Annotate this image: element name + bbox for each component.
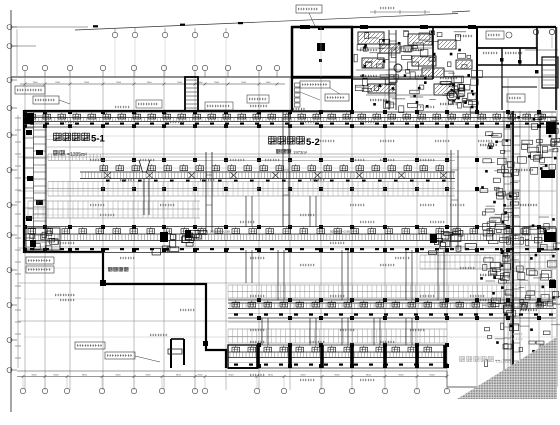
stall comb left segment	[48, 154, 101, 161]
right edge wall x=556	[555, 27, 557, 110]
svg-text:8100: 8100	[301, 375, 307, 377]
duct band 2	[80, 164, 455, 181]
svg-text:8100: 8100	[366, 375, 372, 377]
stall grid zone band2 lower rows	[48, 182, 455, 197]
zone label 5-1	[53, 133, 105, 145]
label box above band1 right	[247, 95, 269, 103]
bottom-left labels	[75, 334, 167, 362]
left duct shaft strip	[25, 111, 103, 252]
svg-text:8100: 8100	[198, 375, 204, 377]
svg-text:500x320 +2.80: 500x320 +2.80	[330, 230, 350, 234]
machinery equipment	[354, 30, 482, 113]
top equipment label with leader	[296, 5, 322, 26]
garage zone label	[108, 267, 113, 272]
duct band 5	[228, 345, 448, 368]
stall grid zone band5 upper	[228, 322, 447, 343]
inter-band connector stubs	[246, 196, 444, 345]
machinery zone walls	[352, 27, 477, 111]
vertical column grid lines	[25, 77, 539, 390]
scattered duct size labels	[60, 106, 493, 381]
svg-text:8100: 8100	[335, 375, 341, 377]
svg-text:7500: 7500	[147, 82, 153, 84]
svg-text:7500: 7500	[33, 82, 39, 84]
watermark text	[459, 333, 523, 365]
svg-text:1973m²: 1973m²	[293, 150, 308, 155]
duct band 3	[24, 227, 559, 253]
svg-text:7500: 7500	[116, 82, 122, 84]
sheet left border line	[10, 10, 12, 412]
svg-text:5-1: 5-1	[91, 134, 105, 145]
band3 dense cluster left	[152, 230, 207, 255]
stepped lower boundary	[24, 252, 226, 368]
zone label 5-2	[268, 136, 320, 148]
machinery tiny labels	[360, 35, 472, 105]
svg-text:=1395m²: =1395m²	[67, 152, 87, 158]
svg-text:8100: 8100	[268, 375, 274, 377]
outer wall: top y=27	[292, 25, 556, 29]
area label 5-2	[276, 149, 308, 155]
stall grid zone band3 lower right	[420, 255, 556, 269]
ramp door block	[100, 280, 106, 286]
vertical duct right V4	[504, 111, 511, 385]
area label 5-1	[53, 150, 87, 158]
stall grid zone left-mid	[28, 201, 200, 218]
outer wall: riser x=292	[291, 27, 293, 111]
svg-text:5-2: 5-2	[306, 137, 320, 148]
svg-text:8100: 8100	[116, 375, 122, 377]
svg-text:8100: 8100	[399, 375, 405, 377]
bottom grid bubbles	[20, 377, 449, 394]
right strip labels	[480, 144, 537, 311]
column squares at grid intersections	[23, 110, 541, 368]
grid bubbles row 2	[22, 65, 279, 77]
vertical duct V3 mid-right	[451, 150, 458, 250]
top-left grid stub lines	[12, 27, 88, 76]
top grid bubbles row 1	[112, 28, 228, 77]
svg-text:7500: 7500	[241, 82, 247, 84]
svg-text:8100: 8100	[176, 375, 182, 377]
outer wall: left vertical x=24	[23, 110, 25, 253]
svg-text:7500: 7500	[177, 82, 183, 84]
trumpet duct joint	[139, 160, 150, 215]
labels above band 1	[136, 100, 267, 110]
svg-text:7500: 7500	[214, 82, 220, 84]
svg-text:8100: 8100	[82, 375, 88, 377]
right edge wall blobs	[538, 117, 556, 288]
outer wall: top-left section y=111	[24, 110, 292, 112]
left margin dimension ticks	[15, 115, 21, 368]
right strip equipment clusters	[480, 111, 560, 387]
top dimension line	[20, 82, 285, 86]
right rooms labels	[483, 31, 525, 102]
left legend boxes top	[15, 86, 70, 104]
svg-text:8100: 8100	[32, 375, 38, 377]
right rooms top walls	[477, 27, 558, 110]
duct band 1	[24, 112, 559, 127]
right service wall x=513	[512, 111, 514, 387]
stair shaft (185-198, 77-111)	[185, 77, 198, 111]
lower boundary small rooms walls	[168, 339, 258, 368]
main top grid line	[11, 76, 558, 78]
band3 left room cluster	[26, 228, 60, 252]
svg-text:7500: 7500	[84, 82, 90, 84]
stall grid zone band4 upper	[228, 285, 556, 298]
svg-text:7500: 7500	[55, 82, 61, 84]
vertical duct V2	[206, 152, 212, 232]
vertical duct V1	[283, 112, 289, 227]
top dimension marks right	[370, 7, 430, 14]
top-right grid bubbles	[525, 29, 558, 50]
room R1 (refuge)	[292, 26, 352, 77]
bottom dimension band	[17, 371, 556, 387]
svg-text:8100: 8100	[430, 375, 436, 377]
svg-text:8100: 8100	[54, 375, 60, 377]
svg-text:320x250 +2.80: 320x250 +2.80	[210, 230, 230, 234]
band3 dense cluster right	[428, 230, 476, 254]
left grid bubbles column	[7, 25, 17, 373]
machinery corner dense cluster	[449, 84, 476, 113]
svg-text:7500: 7500	[266, 82, 272, 84]
top match/leader line	[75, 11, 470, 30]
duct band 4	[228, 300, 556, 318]
right boundary vertical lines	[552, 27, 557, 387]
svg-text:co188: co188	[496, 359, 511, 365]
watermark triangle	[457, 337, 557, 399]
room R2 AHU room	[292, 78, 352, 111]
svg-text:8100: 8100	[229, 375, 235, 377]
stall grid zone band2 upper rows	[48, 154, 455, 161]
horizontal column grid lines	[18, 136, 556, 337]
svg-text:8100: 8100	[146, 375, 152, 377]
ramp area legend	[26, 257, 75, 296]
